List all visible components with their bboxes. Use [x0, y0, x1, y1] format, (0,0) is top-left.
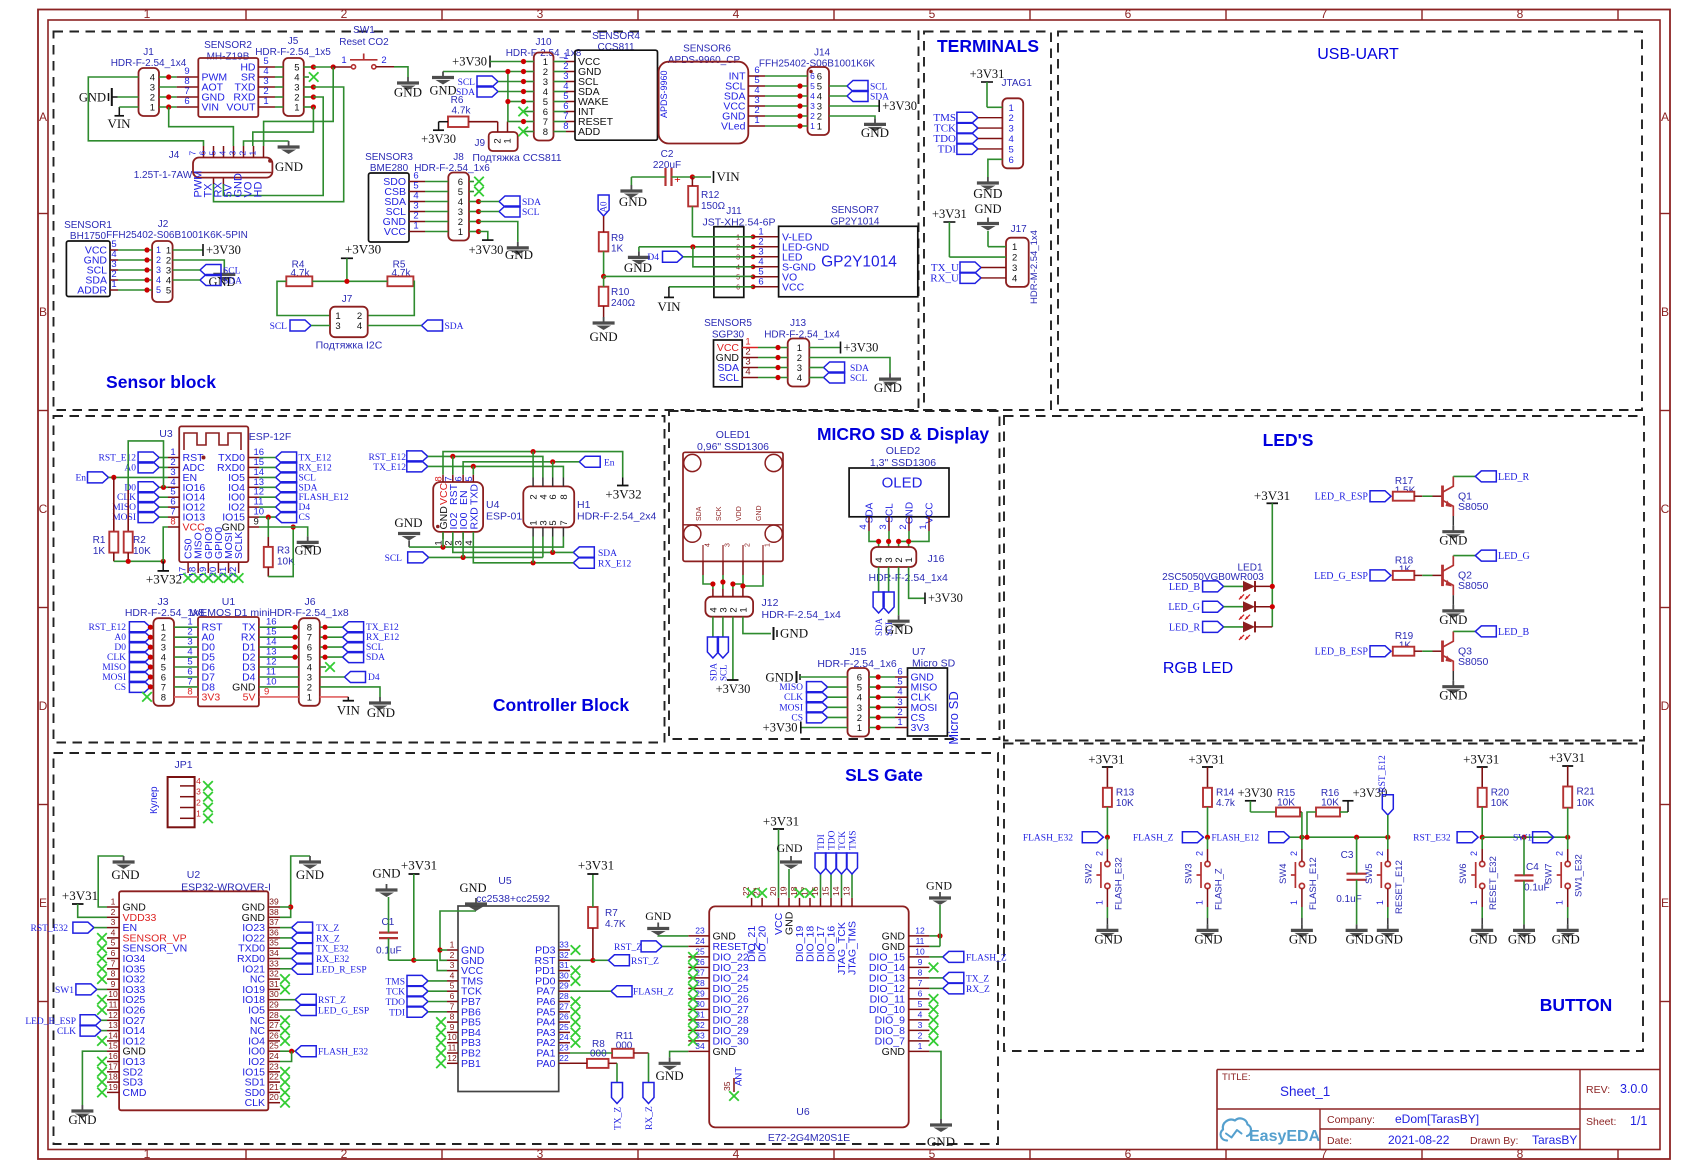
svg-text:SCL: SCL: [870, 83, 888, 93]
svg-text:4: 4: [858, 524, 869, 529]
svg-text:4: 4: [705, 543, 712, 547]
svg-text:29: 29: [269, 1000, 279, 1010]
svg-text:+3V30: +3V30: [452, 55, 487, 69]
net flag RST_Z U6: [641, 941, 662, 952]
block box MICRO SD and Display: [669, 411, 1000, 739]
wire JTAG1 TDO: [978, 138, 1003, 140]
pins J8 right: [469, 181, 474, 183]
svg-text:10K: 10K: [1577, 798, 1595, 809]
net flag LED_G_ESP U2: [295, 1005, 316, 1016]
svg-text:1: 1: [307, 692, 312, 703]
svg-text:2: 2: [1289, 851, 1299, 856]
svg-text:SDA: SDA: [874, 617, 884, 636]
wire J15 CLK: [828, 696, 848, 698]
svg-text:1: 1: [918, 524, 929, 529]
wire J3 CS: [150, 686, 153, 688]
wire U3 A0: [159, 466, 168, 468]
net flag D4 J6: [345, 672, 366, 683]
svg-text:4: 4: [111, 927, 116, 937]
svg-text:+3V31: +3V31: [1088, 752, 1124, 767]
svg-text:5: 5: [111, 938, 116, 948]
svg-text:J1: J1: [143, 47, 154, 58]
svg-text:GND: GND: [394, 515, 422, 530]
ground SW1: [407, 77, 409, 83]
svg-text:RX_E12: RX_E12: [598, 559, 632, 569]
block box BUTTON: [1004, 744, 1643, 1052]
wire U6 gnd34: [670, 1051, 689, 1057]
svg-text:VIN: VIN: [107, 116, 131, 131]
svg-text:ESP-01: ESP-01: [486, 511, 522, 523]
net flag SCL J6: [343, 642, 364, 653]
svg-text:4.7k: 4.7k: [1216, 798, 1236, 809]
wire J1 pin1 right: [159, 106, 177, 108]
svg-text:SW5: SW5: [1364, 863, 1375, 884]
svg-text:GND: GND: [973, 186, 1002, 201]
wire U3 VCC: [163, 527, 168, 561]
connector H1: [523, 486, 574, 527]
svg-text:+3V31: +3V31: [1188, 752, 1224, 767]
net flag TDO U5: [407, 996, 428, 1007]
wire net IO2 U4: [453, 532, 574, 553]
junction c6: [1480, 835, 1485, 840]
svg-text:GND: GND: [1469, 932, 1497, 947]
svg-text:SCL: SCL: [223, 267, 241, 277]
pins U2 right: [268, 906, 280, 908]
svg-text:5: 5: [548, 520, 559, 525]
net flag TDO JTAG: [957, 133, 978, 144]
net flag SW1 U2: [76, 984, 97, 995]
switch SW6: [1480, 861, 1485, 866]
svg-text:+3V30: +3V30: [469, 243, 504, 257]
svg-text:CLK: CLK: [107, 653, 126, 663]
wire U2 IO0: [280, 1050, 295, 1052]
svg-text:1: 1: [810, 121, 815, 131]
wire C1 to U5 VCC: [389, 959, 414, 961]
pins U2 left: [107, 906, 119, 908]
wire J1 pin1 VIN: [119, 106, 138, 108]
wire R2 loop: [128, 441, 163, 490]
net flag LED_G LED1: [1203, 601, 1224, 612]
svg-text:8: 8: [1517, 7, 1524, 21]
wires SENSOR5 to J13: [758, 347, 788, 349]
svg-text:CS: CS: [299, 513, 311, 523]
net flag RST_E12 J3: [129, 622, 150, 633]
junction c2: [1205, 835, 1210, 840]
wire J11 pin6 VIN: [669, 286, 753, 288]
svg-text:4: 4: [797, 373, 802, 384]
svg-text:J13: J13: [790, 318, 807, 329]
switch SW7: [1565, 861, 1570, 866]
svg-text:3: 3: [1012, 263, 1017, 274]
wire U5 TCK: [428, 990, 447, 992]
wire U2 pin1 gnd: [98, 856, 123, 907]
svg-text:35: 35: [722, 1081, 732, 1091]
wire J10 pin3: [498, 81, 524, 83]
wire J1 pin4 right: [159, 76, 177, 78]
wire J10 pin4: [498, 91, 524, 93]
svg-text:HDR-F-2.54_1x4: HDR-F-2.54_1x4: [762, 609, 842, 621]
wire R5 to J7 pin2: [368, 281, 415, 315]
svg-text:GND: GND: [367, 705, 395, 720]
ground J16: [898, 615, 900, 621]
svg-text:RX_Z: RX_Z: [645, 1106, 655, 1130]
svg-text:GND: GND: [927, 1134, 955, 1149]
svg-text:R1: R1: [93, 535, 106, 546]
svg-text:E: E: [39, 896, 47, 910]
svg-text:SENSOR1: SENSOR1: [64, 220, 112, 231]
ground U2 pin15: [81, 1105, 83, 1111]
svg-text:4: 4: [736, 264, 740, 271]
net flag MOSI J3: [129, 672, 150, 683]
ground Q3: [1452, 681, 1454, 687]
title block grid: [1216, 1070, 1218, 1150]
svg-text:5: 5: [450, 981, 455, 991]
pins U6 top: [751, 898, 753, 907]
net flag RST_E12 U3: [138, 452, 159, 463]
svg-text:26: 26: [695, 957, 705, 967]
svg-text:8: 8: [563, 121, 568, 132]
svg-text:GND: GND: [1552, 932, 1580, 947]
svg-text:32: 32: [269, 969, 279, 979]
svg-text:1: 1: [413, 221, 418, 232]
svg-text:1.25T-1-7AW: 1.25T-1-7AW: [134, 170, 193, 181]
block box Controller Block: [54, 416, 665, 743]
svg-text:GND: GND: [275, 159, 303, 174]
wire J1 pin2 gnd: [118, 96, 139, 98]
net flag TDO U6: [830, 874, 832, 898]
wire net VCC U4: [443, 452, 623, 478]
svg-text:12: 12: [915, 925, 925, 935]
svg-text:REV:: REV:: [1586, 1084, 1610, 1096]
svg-text:25: 25: [695, 946, 705, 956]
svg-text:3V3: 3V3: [202, 691, 221, 703]
svg-text:6: 6: [198, 151, 208, 156]
svg-text:23: 23: [559, 1043, 569, 1053]
svg-text:ESP-12F: ESP-12F: [249, 431, 292, 443]
svg-text:RX_E32: RX_E32: [316, 955, 350, 965]
svg-text:GND: GND: [1094, 932, 1122, 947]
svg-text:TX_E12: TX_E12: [373, 463, 406, 473]
svg-text:SDA: SDA: [708, 662, 718, 681]
svg-text:6: 6: [1125, 7, 1132, 21]
svg-text:R3: R3: [277, 546, 290, 557]
wires U1 to J6: [259, 626, 299, 628]
ground U2 top right: [309, 856, 311, 862]
svg-text:5V: 5V: [243, 691, 256, 703]
wire U6 DIO15: [929, 956, 942, 958]
wire U2 TX_Z: [280, 927, 292, 929]
svg-text:32: 32: [559, 950, 569, 960]
svg-text:TX_E32: TX_E32: [316, 945, 349, 955]
svg-text:TERMINALS: TERMINALS: [937, 36, 1039, 56]
net flag SDA U3r: [276, 482, 297, 493]
svg-text:1: 1: [1094, 900, 1104, 905]
svg-text:MOSI: MOSI: [779, 703, 803, 713]
svg-text:EasyEDA: EasyEDA: [1249, 1128, 1321, 1145]
pins SENSOR3 right: [409, 181, 425, 183]
svg-text:SCLK: SCLK: [233, 532, 245, 559]
svg-text:14: 14: [831, 886, 841, 896]
net flag RX_Z U6: [943, 983, 964, 994]
wire R1 lead: [113, 477, 115, 531]
wire J12 pin1 gnd: [743, 617, 771, 634]
svg-text:1: 1: [817, 122, 822, 133]
power +3V30 R6: [438, 122, 440, 131]
svg-text:GND: GND: [713, 1046, 737, 1058]
svg-text:ANT: ANT: [734, 1067, 745, 1086]
net flag LED_B: [1475, 626, 1496, 637]
svg-text:+3V30: +3V30: [763, 721, 798, 735]
pin U6 ANT: [733, 1078, 735, 1092]
svg-text:4: 4: [1009, 134, 1014, 145]
net flag TX_E32 U2: [292, 943, 313, 954]
net flag CS J3: [129, 681, 150, 692]
wire U6 DIO13: [929, 977, 942, 979]
wires J3 to U1: [174, 626, 198, 628]
svg-text:4.7K: 4.7K: [605, 919, 626, 930]
svg-text:24: 24: [269, 1051, 279, 1061]
junction LED1: [1270, 584, 1275, 589]
ground U2 pin1: [123, 856, 125, 862]
wire J11 pin1: [692, 236, 753, 238]
svg-text:cc2538+cc2592: cc2538+cc2592: [476, 893, 550, 905]
ic SENSOR6 APDS-9960: [659, 62, 749, 144]
wire U3r FLASH_E12: [259, 496, 276, 498]
connector J16: [871, 547, 916, 567]
ground c1: [1106, 924, 1108, 930]
net flag TDI U6: [820, 874, 822, 898]
svg-text:J17: J17: [1011, 224, 1028, 235]
ground C4: [1523, 924, 1525, 930]
wire J6 SDA: [320, 656, 343, 658]
ic SENSOR4 CCS811: [575, 50, 658, 140]
net flag D4 J11: [663, 251, 684, 262]
svg-text:5: 5: [736, 274, 740, 281]
transistor Q1 S8050: [1441, 486, 1444, 507]
connector J5: [283, 58, 304, 116]
svg-text:+3V31: +3V31: [932, 207, 967, 221]
svg-text:27: 27: [559, 1001, 569, 1011]
net flag TMS U6: [851, 874, 853, 898]
wire U5 TDI: [428, 1011, 447, 1013]
svg-text:HD: HD: [253, 182, 265, 198]
svg-text:GND: GND: [505, 247, 533, 262]
connector J14: [808, 67, 830, 135]
svg-text:1: 1: [144, 1147, 151, 1161]
svg-text:TDI: TDI: [938, 143, 957, 155]
svg-text:GND: GND: [885, 622, 913, 637]
svg-text:5: 5: [208, 151, 218, 156]
net flag SDA J13: [824, 362, 845, 373]
ic U3 ESP-12F: [179, 426, 248, 562]
svg-text:1: 1: [263, 96, 268, 107]
svg-text:RX_E12: RX_E12: [366, 633, 400, 643]
svg-text:LED_G_ESP: LED_G_ESP: [1314, 571, 1368, 582]
svg-text:GND: GND: [882, 1046, 906, 1058]
net flag TX_Z U2: [292, 922, 313, 933]
svg-text:U3: U3: [159, 428, 173, 440]
net flag A0 U3: [138, 462, 159, 473]
svg-text:CMD: CMD: [123, 1087, 147, 1099]
svg-text:GP2Y1014: GP2Y1014: [821, 254, 897, 271]
wire J9 pin1 J10 pin7: [508, 121, 524, 123]
svg-text:C3: C3: [1341, 850, 1354, 861]
svg-text:SW7: SW7: [1544, 863, 1555, 884]
svg-text:2: 2: [450, 950, 455, 960]
svg-text:APDS-9960_CP: APDS-9960_CP: [668, 55, 741, 66]
svg-text:SDA: SDA: [299, 483, 318, 493]
svg-text:11: 11: [916, 936, 925, 946]
svg-text:6: 6: [810, 71, 815, 81]
wire U3r RX_E12: [259, 466, 276, 468]
wires SENSOR3 to J8: [425, 181, 448, 183]
svg-text:6: 6: [1009, 155, 1014, 166]
svg-text:SCL: SCL: [366, 643, 384, 653]
svg-text:1: 1: [754, 115, 759, 126]
svg-text:27: 27: [269, 1020, 279, 1030]
wire collector Q3: [1453, 630, 1475, 632]
svg-text:R10: R10: [611, 287, 630, 298]
svg-text:PA0: PA0: [536, 1058, 555, 1070]
svg-text:4: 4: [218, 151, 228, 156]
svg-text:0.1uF: 0.1uF: [1336, 894, 1362, 905]
net flag SDA U4: [573, 547, 594, 558]
wire collector Q2: [1453, 555, 1475, 557]
net flag LED_R LED1: [1203, 621, 1224, 632]
wire U2 IO5: [280, 1009, 295, 1011]
svg-text:10K: 10K: [1491, 798, 1509, 809]
switch SW5: [1385, 861, 1390, 866]
net flag SCL U4: [408, 552, 429, 563]
svg-text:D4: D4: [299, 503, 311, 513]
svg-text:J16: J16: [928, 553, 945, 565]
svg-text:U6: U6: [796, 1106, 810, 1118]
wire J15 pin1 +3V30: [801, 727, 848, 729]
svg-text:+3V32: +3V32: [146, 572, 182, 587]
wire U3 EN: [109, 476, 169, 478]
svg-text:7: 7: [188, 151, 198, 156]
net flag FLASH_E32: [1082, 832, 1103, 843]
wire U3r D4: [259, 506, 276, 508]
svg-text:RESET_E12: RESET_E12: [1394, 860, 1405, 914]
net flag TX_E12 J6: [343, 622, 364, 633]
svg-text:2: 2: [1012, 253, 1017, 264]
svg-text:SW1_E32: SW1_E32: [1574, 854, 1585, 897]
wire J14 SCL: [829, 85, 847, 87]
svg-text:26: 26: [269, 1030, 279, 1040]
wire R1 R2 bottom rail: [113, 553, 115, 562]
ground SW7: [1567, 924, 1569, 930]
svg-text:2: 2: [1375, 851, 1385, 856]
connector J12: [705, 597, 753, 617]
wire U2 IO18: [280, 999, 295, 1001]
wire U6 gnd12 right: [929, 935, 940, 937]
svg-text:+3V31: +3V31: [1254, 488, 1290, 503]
wire U5 TMS: [428, 980, 447, 982]
svg-text:GND: GND: [1375, 932, 1403, 947]
svg-text:SCK: SCK: [716, 506, 723, 521]
wire emitter Q1 gnd: [1452, 516, 1454, 526]
svg-text:GND: GND: [1508, 932, 1536, 947]
wire net HD: [313, 66, 333, 68]
svg-text:5: 5: [166, 286, 171, 297]
svg-text:J10: J10: [535, 37, 552, 48]
wire J3 CLK: [150, 656, 153, 658]
svg-text:+3V30: +3V30: [206, 243, 241, 257]
ground J13: [889, 373, 891, 379]
svg-text:B: B: [39, 305, 47, 319]
connector J9: [489, 132, 518, 151]
wire U3 MOSI: [159, 516, 168, 518]
power VIN C2: [713, 171, 715, 183]
wires J15 to U7: [869, 676, 895, 678]
svg-text:32: 32: [695, 1020, 705, 1030]
svg-text:2: 2: [1094, 851, 1104, 856]
svg-text:Reset CO2: Reset CO2: [339, 37, 389, 48]
ground Q2: [1452, 605, 1454, 611]
svg-text:1/1: 1/1: [1630, 1114, 1647, 1128]
svg-text:LED_R_ESP: LED_R_ESP: [1315, 492, 1369, 503]
wire J3 MOSI: [150, 676, 153, 678]
connector J3: [153, 618, 174, 706]
wires SENSOR6 to J14: [765, 75, 808, 77]
svg-text:29: 29: [559, 981, 569, 991]
svg-text:220uF: 220uF: [653, 160, 681, 171]
svg-text:31: 31: [269, 979, 279, 989]
svg-text:GND: GND: [756, 505, 763, 521]
svg-text:1: 1: [294, 103, 299, 114]
wire c2 sw: [1207, 837, 1209, 849]
switch SW2: [1105, 861, 1110, 866]
svg-text:J12: J12: [762, 597, 779, 609]
svg-text:MISO: MISO: [779, 683, 803, 693]
ground J12 bars: [773, 627, 775, 640]
wire U3 CLK: [159, 496, 168, 498]
svg-text:J4: J4: [169, 150, 180, 161]
net flag LED_G: [1475, 550, 1496, 561]
wire LED_R LED1: [1224, 626, 1243, 628]
svg-text:3: 3: [810, 101, 815, 111]
svg-text:GND: GND: [68, 1112, 96, 1127]
svg-text:2: 2: [745, 543, 752, 547]
svg-text:Micro SD: Micro SD: [946, 691, 961, 744]
svg-text:R20: R20: [1491, 788, 1510, 799]
pins SENSOR2 left: [177, 76, 199, 78]
svg-text:19: 19: [108, 1082, 118, 1092]
svg-text:Date:: Date:: [1327, 1135, 1352, 1147]
svg-text:4: 4: [918, 1009, 923, 1019]
svg-text:A: A: [39, 110, 47, 124]
wire J11 pin2 to pin4: [693, 247, 753, 267]
wire U5 gnd12: [440, 911, 476, 960]
net flag RST_E12 U4: [407, 451, 428, 462]
svg-text:SCL: SCL: [299, 473, 317, 483]
svg-text:1: 1: [196, 808, 201, 818]
wire J8 pin1 +3V30: [479, 232, 488, 241]
svg-text:22: 22: [559, 1053, 569, 1063]
svg-text:3: 3: [335, 321, 340, 332]
svg-text:2: 2: [156, 255, 161, 265]
svg-text:1: 1: [341, 55, 346, 66]
ic U5 cc2538: [458, 906, 559, 1092]
svg-text:10: 10: [447, 1032, 457, 1042]
svg-text:10: 10: [108, 989, 118, 999]
ground c2: [1207, 924, 1209, 930]
svg-text:1: 1: [738, 607, 749, 612]
ic U6 E72-2G4M20S1E: [709, 906, 909, 1127]
wire SW1 net row: [1482, 836, 1568, 838]
svg-text:+3V31: +3V31: [763, 814, 799, 829]
